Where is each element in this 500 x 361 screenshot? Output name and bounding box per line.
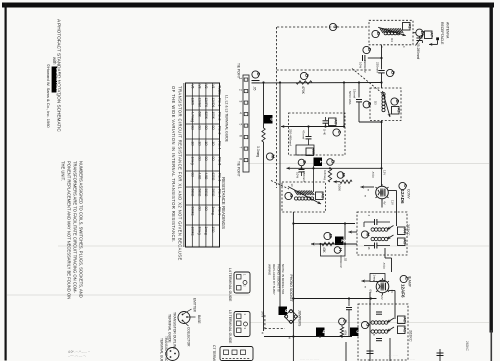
svg-text:500K‡: 500K‡ — [191, 207, 195, 216]
svg-text:PHONO SOCKET: PHONO SOCKET — [289, 275, 293, 302]
IF transformer T1 dashed box — [357, 212, 407, 255]
svg-text:0Ω: 0Ω — [211, 157, 215, 162]
svg-text:IF AMP: IF AMP — [408, 276, 412, 288]
wire dashed vertical gang — [276, 27, 278, 188]
svg-text:625Ω: 625Ω — [211, 173, 215, 181]
svg-text:0Ω: 0Ω — [191, 173, 195, 178]
node B antenna — [416, 29, 423, 36]
svg-text:250-480mmf: 250-480mmf — [289, 129, 293, 146]
circuitrace 2 with node M — [324, 232, 331, 239]
svg-text:820K: 820K — [204, 112, 208, 120]
svg-text:M: M — [271, 155, 276, 159]
svg-text:··¯¯ ·¯· ··· ¯·: ··¯¯ ·¯· ··· ¯· — [68, 355, 86, 359]
circuitrace 5 — [264, 115, 273, 124]
svg-text:TRANSFORMERS ARE TO FACILITATE: TRANSFORMERS ARE TO FACILITATE CIRCUIT T… — [73, 161, 78, 293]
wire L1 pin 3 down — [381, 45, 383, 70]
svg-text:-5½V: -5½V — [371, 171, 375, 178]
svg-text:x: x — [262, 330, 264, 335]
capacitor 15mmf NPO — [358, 83, 360, 98]
svg-text:CT TERMINAL GUIDE: CT TERMINAL GUIDE — [212, 345, 216, 361]
fold line horizontal middle — [58, 245, 489, 247]
svg-text:BASE: BASE — [197, 315, 201, 324]
svg-text:1meg: 1meg — [204, 227, 208, 235]
transistor outline drawing — [178, 312, 190, 324]
T2 top capacitor — [376, 311, 382, 313]
svg-text:12AD6: 12AD6 — [211, 98, 215, 108]
svg-text:B: B — [331, 160, 336, 163]
node B near 15mmf — [363, 101, 370, 108]
svg-text:x: x — [289, 335, 291, 340]
grid arrow V2 — [362, 280, 371, 282]
svg-text:B: B — [367, 103, 372, 106]
wire main horizontal bus — [260, 82, 382, 84]
node H — [334, 247, 341, 254]
node A — [329, 23, 336, 30]
svg-text:.1Ω: .1Ω — [204, 141, 208, 147]
svg-text:M: M — [328, 234, 333, 238]
svg-text:D4: D4 — [390, 38, 394, 42]
svg-text:RECEPTACLE: RECEPTACLE — [440, 22, 444, 45]
svg-text:580Ω: 580Ω — [204, 189, 208, 197]
wire bottom stub 2 — [389, 338, 391, 361]
svg-text:-5½V: -5½V — [382, 262, 386, 269]
svg-text:Pin 6: Pin 6 — [218, 173, 222, 181]
wire AVC dashed top — [277, 26, 369, 28]
resistor 6.8meg — [328, 168, 331, 182]
svg-text:JUMPERS: JUMPERS — [298, 310, 302, 327]
T1 bottom capacitor — [364, 245, 374, 247]
svg-text:1: 1 — [239, 78, 243, 80]
svg-text:580Ω: 580Ω — [197, 189, 201, 197]
svg-text:CIRCUITRACE: CIRCUITRACE — [55, 68, 60, 95]
svg-text:V1: V1 — [211, 85, 215, 89]
svg-text:L5 TERMINAL GUIDE: L5 TERMINAL GUIDE — [228, 310, 232, 344]
T1 tuning arrows — [387, 226, 394, 230]
transistor socket drawing — [166, 348, 179, 361]
wire dashed gang horizontal — [277, 69, 373, 71]
svg-text:220mmf: 220mmf — [376, 62, 380, 73]
svg-text:.05: .05 — [253, 86, 257, 91]
svg-text:.1Ω: .1Ω — [211, 141, 215, 147]
wire 220mmf to L3 — [381, 73, 383, 88]
svg-text:G: G — [366, 323, 371, 327]
node B audio — [339, 318, 346, 325]
svg-text:Pin 9: Pin 9 — [218, 207, 222, 215]
capacitor .05 with node D at tie strip — [252, 71, 259, 78]
capacitor bottom edge left — [367, 350, 374, 352]
svg-text:0Ω: 0Ω — [204, 157, 208, 162]
svg-text:.. ...: .. ... — [410, 357, 415, 361]
svg-text:D3: D3 — [374, 101, 378, 105]
circuitrace 3 — [350, 328, 359, 337]
coil L2 windings — [295, 191, 298, 196]
svg-text:12V: 12V — [380, 295, 384, 300]
svg-text:2: 2 — [340, 239, 346, 242]
capacitor at V2 cathode — [348, 299, 350, 307]
svg-text:TUBE: TUBE — [218, 85, 222, 95]
part box A7 — [425, 31, 433, 39]
svg-text:4V: 4V — [383, 201, 387, 205]
svg-text:12AE6: 12AE6 — [197, 98, 201, 108]
svg-text:1meg: 1meg — [191, 157, 195, 165]
svg-text:B: B — [391, 71, 396, 74]
node B right of square 1 — [327, 159, 334, 166]
svg-text:H: H — [338, 248, 343, 251]
oscillator grid wire — [287, 167, 297, 169]
svg-text:6: 6 — [239, 135, 243, 137]
node E at V2 — [400, 275, 407, 282]
svg-text:THE UNIT.: THE UNIT. — [61, 161, 66, 181]
wire V1 plate right and down — [388, 190, 396, 192]
svg-text:470K: 470K — [301, 86, 305, 95]
svg-text:A8: A8 — [320, 193, 325, 199]
wire L3 down to tube grid — [381, 121, 383, 187]
part box A1 T2 — [398, 326, 406, 334]
phono socket symbol — [285, 310, 298, 324]
svg-text:1V: 1V — [390, 290, 394, 294]
svg-text:A6: A6 — [333, 119, 338, 125]
svg-text:V3: V3 — [197, 85, 201, 89]
svg-text:1meg: 1meg — [373, 275, 377, 282]
wire long vertical left 1 — [263, 83, 265, 129]
jumper dashed wires with X marks — [265, 328, 285, 330]
svg-text:NOTE: IN MODEL 504: NOTE: IN MODEL 504 — [281, 264, 285, 295]
wire bus down into oscillator box — [343, 83, 345, 127]
node G in T2 — [361, 321, 368, 328]
CT terminal guide drawing — [220, 347, 253, 361]
svg-text:G: G — [289, 194, 294, 198]
svg-text:A2: A2 — [402, 317, 407, 323]
wire bottom stub 1 — [345, 342, 347, 361]
svg-text:0Ω: 0Ω — [204, 126, 208, 131]
svg-text:.1Ω: .1Ω — [191, 141, 195, 147]
svg-text:M: M — [341, 173, 346, 177]
AGC takeoff arrow — [349, 231, 358, 233]
svg-text:47K: 47K — [344, 330, 348, 335]
IF transformer T2 dashed box — [358, 304, 408, 360]
T2 bottom capacitor — [376, 338, 382, 340]
node C oscillator — [333, 129, 340, 136]
svg-text:15mmf: 15mmf — [353, 89, 357, 98]
node G in L2 box — [285, 192, 292, 199]
svg-text:100K: 100K — [338, 184, 342, 191]
svg-text:0V: 0V — [369, 290, 373, 294]
circuitrace 4 — [316, 328, 325, 337]
wire long vertical left 2 — [279, 83, 281, 308]
svg-text:V5: V5 — [191, 85, 195, 89]
svg-text:0Ω: 0Ω — [197, 207, 201, 212]
trimmer capacitor 25-280mmf — [418, 36, 420, 38]
svg-text:OF THE WIDE VARIATION IN INTER: OF THE WIDE VARIATION IN INTERNAL TRANSI… — [171, 86, 176, 243]
svg-text:0Ω: 0Ω — [197, 157, 201, 162]
terminal strip L1 L2 L3 — [243, 75, 249, 172]
svg-text:.02: .02 — [344, 257, 348, 262]
svg-text:6.8meg: 6.8meg — [323, 170, 327, 180]
svg-text:A1: A1 — [407, 24, 412, 30]
svg-text:Pin 5: Pin 5 — [218, 157, 222, 165]
oscillator coil L2 dashed box — [282, 182, 326, 212]
svg-text:TRANSISTOR SOCKET: TRANSISTOR SOCKET — [164, 336, 168, 361]
svg-text:A3: A3 — [402, 239, 407, 245]
part box A8 — [316, 192, 324, 200]
resistor 100K horizontal with node M — [337, 172, 344, 179]
wire square 1 down to L2 — [313, 166, 315, 192]
grid resistor box V2 — [370, 274, 385, 282]
node B in L3 box — [391, 98, 398, 105]
L4 terminal guide drawing — [234, 272, 250, 293]
svg-text:ANTENNA: ANTENNA — [446, 22, 450, 39]
svg-text:100K‡: 100K‡ — [191, 227, 195, 236]
T2 primary winding — [371, 321, 374, 324]
wire V2 plate to T2 — [389, 290, 396, 292]
svg-text:D-40: D-40 — [323, 129, 327, 136]
wire L1 to node B — [413, 32, 416, 34]
svg-text:580Ω: 580Ω — [211, 189, 215, 197]
node B left of square 1 — [298, 159, 305, 166]
svg-text:262KC: 262KC — [406, 224, 410, 236]
antenna coil L1 dashed box — [369, 20, 413, 45]
svg-text:100K: 100K — [211, 112, 215, 120]
svg-text:... . .. ...: ... . .. ... — [388, 353, 398, 357]
capacitor at A6 — [325, 117, 327, 120]
svg-text:A1: A1 — [402, 327, 407, 333]
svg-text:Pin 2: Pin 2 — [218, 112, 222, 120]
svg-text:Pin 7: Pin 7 — [218, 189, 222, 197]
svg-text:with: with — [52, 57, 57, 65]
svg-text:262KC: 262KC — [409, 330, 413, 342]
AGC network wire — [311, 243, 321, 245]
oscillator wire with arrow — [281, 126, 290, 128]
fold line horizontal lower right — [250, 322, 489, 324]
svg-text:A7: A7 — [429, 32, 434, 38]
node D in L1 box — [372, 30, 379, 37]
page border left rule — [5, 3, 7, 361]
svg-text:Pin 4: Pin 4 — [218, 141, 222, 149]
svg-text:.. ... . .. .. . ... ..: .. ... . .. .. . ... .. — [300, 357, 319, 361]
svg-text:12V: 12V — [383, 170, 387, 175]
svg-text:0Ω: 0Ω — [191, 126, 195, 131]
svg-text:3meg: 3meg — [211, 207, 215, 215]
svg-text:12AF6: 12AF6 — [401, 284, 406, 298]
T1 secondary winding — [371, 237, 374, 240]
capacitor 220mmf — [378, 70, 384, 72]
resistance readings table grid — [186, 83, 220, 247]
svg-text:11V: 11V — [391, 200, 395, 205]
svg-text:REPLACED BY 8H807: REPLACED BY 8H807 — [272, 264, 276, 295]
part box A5 — [306, 148, 314, 156]
svg-text:Pin 3: Pin 3 — [218, 126, 222, 134]
L5 terminal guide drawing — [234, 312, 250, 337]
circuitrace 1 — [314, 158, 323, 167]
svg-text:B: B — [305, 74, 310, 77]
V2 cathode wire to phono — [293, 298, 376, 300]
T1 primary capacitor — [364, 221, 374, 223]
svg-text:1: 1 — [318, 160, 324, 163]
part box A2 in L3 box — [392, 107, 400, 115]
svg-text:D: D — [376, 32, 381, 35]
svg-text:25-280mmf: 25-280mmf — [416, 43, 420, 59]
svg-text:0Ω: 0Ω — [204, 207, 208, 212]
part box A4 — [398, 227, 406, 235]
svg-text:D: D — [256, 73, 261, 76]
svg-text:40K: 40K — [322, 247, 326, 254]
svg-text:B: B — [343, 320, 348, 323]
svg-text:4.8Ω: 4.8Ω — [204, 173, 208, 180]
svg-text:PONENT REPLACEMENT AND MAY NOT: PONENT REPLACEMENT AND MAY NOT NECESSARI… — [67, 161, 72, 299]
part box A6 — [329, 118, 337, 126]
svg-text:TERMINAL GUIDE: TERMINAL GUIDE — [168, 314, 172, 343]
page border top bar — [2, 3, 494, 8]
svg-text:1000mmf: 1000mmf — [339, 255, 343, 268]
svg-text:COLLECTOR: COLLECTOR — [187, 327, 191, 347]
svg-text:262KC: 262KC — [465, 341, 469, 351]
fold line horizontal upper — [248, 163, 489, 165]
circuitrace 6 — [279, 307, 288, 316]
wire T1 to V2 grid — [384, 248, 386, 258]
svg-text:47mmf: 47mmf — [302, 130, 306, 139]
svg-text:L4 TERMINAL GUIDE: L4 TERMINAL GUIDE — [228, 268, 232, 302]
svg-text:4.8Ω: 4.8Ω — [197, 173, 201, 180]
node M oscillator grid — [266, 153, 273, 160]
dashed gang diagonal to L2 — [271, 181, 289, 190]
svg-text:5: 5 — [239, 124, 243, 126]
svg-text:3: 3 — [239, 101, 243, 103]
svg-text:3meg: 3meg — [197, 227, 201, 235]
resistor 40K — [322, 242, 334, 245]
svg-text:4.7meg: 4.7meg — [191, 112, 195, 123]
svg-text:B: B — [395, 100, 400, 103]
svg-text:3½V: 3½V — [261, 311, 265, 318]
svg-text:WIRING: WIRING — [268, 264, 272, 276]
svg-text:6: 6 — [283, 309, 289, 312]
svg-text:8: 8 — [239, 158, 243, 160]
part box A3 — [398, 238, 406, 246]
trimmer 250-480mmf box — [296, 145, 314, 155]
capacitor 47mmf oscillator — [308, 127, 310, 137]
fold line horizontal left lower — [7, 294, 250, 296]
part box A2 T2 — [398, 316, 406, 324]
T1 primary winding — [371, 228, 374, 231]
capacitor bottom edge right — [439, 349, 441, 361]
coil L3 windings — [382, 93, 385, 96]
svg-text:4 0* .··. * ..…. ··: 4 0* .··. * ..…. ·· — [68, 350, 90, 354]
dashed gang diagonal L1-L3 — [352, 69, 385, 96]
grid arrow V1 — [361, 186, 375, 188]
oscillator coil L3 dashed box — [370, 88, 401, 121]
svg-text:EMITTER: EMITTER — [193, 298, 197, 313]
page border right rule — [490, 3, 493, 333]
part box A1 — [403, 23, 411, 31]
svg-text:7: 7 — [239, 147, 243, 149]
svg-text:3.3meg: 3.3meg — [256, 146, 260, 157]
node M in T1 — [361, 231, 368, 238]
svg-text:Pin 1: Pin 1 — [218, 98, 222, 106]
tube V1 12AD6 converter — [376, 186, 389, 199]
node B below 220mmf — [386, 69, 393, 76]
svg-text:TERMINAL GUIDE: TERMINAL GUIDE — [160, 338, 164, 361]
T2 secondary winding — [371, 330, 374, 333]
wire V2 cathode down — [369, 292, 371, 299]
resistor 47K audio — [341, 325, 343, 327]
oscillator dashed box — [289, 113, 346, 155]
node C at V1 — [399, 182, 406, 189]
antenna receptacle symbol — [421, 41, 423, 44]
svg-text:5: 5 — [269, 118, 275, 121]
svg-text:M: M — [366, 233, 371, 237]
svg-text:V2: V2 — [204, 85, 208, 89]
svg-text:PHONO SOCKET IS: PHONO SOCKET IS — [277, 264, 281, 292]
T2 tuning arrows — [387, 318, 394, 323]
svg-text:12AD6: 12AD6 — [400, 190, 405, 205]
svg-text:0Ω: 0Ω — [197, 126, 201, 131]
coil L1 windings — [380, 28, 383, 33]
capacitor 680mmf — [301, 166, 303, 169]
svg-text:3900mmf: 3900mmf — [363, 60, 367, 73]
svg-text:10%: 10% — [296, 172, 300, 178]
svg-text:B: B — [302, 161, 307, 164]
svg-text:0Ω: 0Ω — [211, 126, 215, 131]
capacitor 3900mmf with node D — [363, 46, 370, 53]
svg-text:580Ω: 580Ω — [191, 189, 195, 197]
resistor 3.3meg — [262, 128, 265, 142]
svg-text:A5: A5 — [311, 149, 316, 155]
tube V2 12AF6 IF amplifier — [376, 280, 389, 293]
svg-text:©Howard W. Sams & Co., Inc. 19: ©Howard W. Sams & Co., Inc. 1960 — [46, 64, 51, 128]
svg-text:2: 2 — [239, 89, 243, 91]
svg-text:68K: 68K — [197, 112, 201, 119]
svg-text:12K5: 12K5 — [191, 98, 195, 106]
svg-text:TIE POINT: TIE POINT — [237, 63, 241, 79]
svg-text:10%: 10% — [359, 62, 363, 68]
svg-text:TIE POINT: TIE POINT — [237, 161, 241, 177]
wire V1 cathode stub — [381, 199, 383, 208]
wire audio bus bottom — [264, 336, 352, 338]
cathode bus V1 — [293, 223, 355, 225]
svg-text:RESISTANCE READINGS: RESISTANCE READINGS — [221, 177, 226, 229]
svg-text:CONV: CONV — [407, 189, 411, 199]
svg-text:NPO 10%: NPO 10% — [348, 91, 352, 105]
svg-text:TRANSISTOR OUTLINE: TRANSISTOR OUTLINE — [173, 312, 177, 350]
svg-text:680mmf: 680mmf — [302, 171, 306, 182]
svg-text:.1Ω: .1Ω — [197, 141, 201, 147]
resistor 470K on bus — [300, 72, 307, 79]
svg-text:4: 4 — [239, 112, 243, 114]
svg-text:NUMBERS ASSIGNED TO COILS, SWI: NUMBERS ASSIGNED TO COILS, SWITCHES, PLU… — [79, 161, 84, 298]
svg-text:10Ω: 10Ω — [211, 227, 215, 234]
svg-text:12AF6: 12AF6 — [204, 98, 208, 108]
wire L2 down to bottom — [292, 212, 294, 361]
svg-text:L1, L2 & L3 TERMINAL GUIDE: L1, L2 & L3 TERMINAL GUIDE — [225, 95, 229, 143]
svg-text:A2: A2 — [396, 108, 401, 114]
svg-text:TRANSISTOR CIRCUIT RESISTANCE: TRANSISTOR CIRCUIT RESISTANCE FOR X1 AND… — [178, 86, 183, 261]
svg-text:D: D — [367, 48, 372, 51]
